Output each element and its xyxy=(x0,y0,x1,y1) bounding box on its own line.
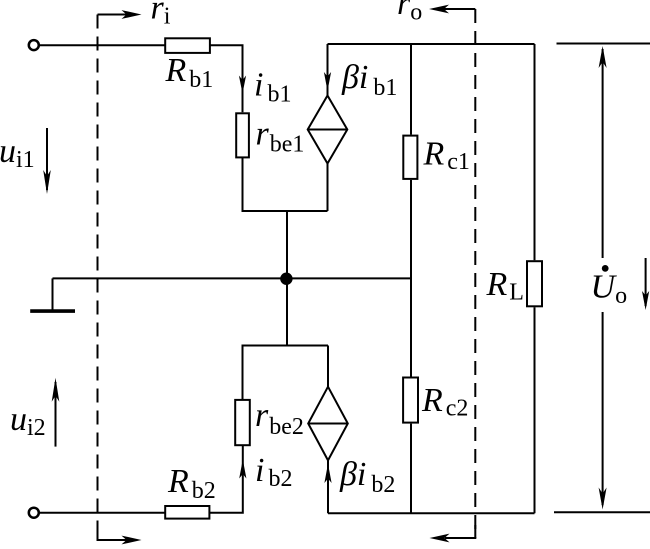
wire diamond2 bottom to bottom rail xyxy=(327,460,329,513)
controlled source U2 diamond xyxy=(308,387,348,461)
svg-text:Rc1: Rc1 xyxy=(423,136,470,176)
wire diamond1 bottom to junction wire xyxy=(327,164,329,212)
svg-text:ui1: ui1 xyxy=(0,133,35,173)
wire input2 to Rb2 xyxy=(40,512,166,514)
ro arrow xyxy=(444,8,475,10)
dashed boundary right xyxy=(474,9,476,538)
ui1 polarity arrow xyxy=(46,128,48,190)
resistor rbe2 xyxy=(235,400,250,445)
svg-text:βib2: βib2 xyxy=(339,456,395,498)
resistor RL xyxy=(527,261,542,306)
input terminal 1 xyxy=(29,40,39,50)
svg-text:Rb2: Rb2 xyxy=(167,463,216,504)
output measure bottom bar xyxy=(554,511,650,513)
controlled source U1 diamond xyxy=(308,96,348,164)
svg-text:Uo: Uo xyxy=(591,269,628,310)
ui2 polarity arrow xyxy=(55,382,57,447)
wire Rb2 to rbe2 (corner up) xyxy=(210,446,243,513)
wire top rail to Rc1 xyxy=(410,44,412,135)
svg-text:βib1: βib1 xyxy=(341,59,397,101)
resistor Rb2 xyxy=(165,506,209,519)
beta ib2 current arrow xyxy=(324,464,331,483)
ri arrow xyxy=(98,14,128,16)
ib1 current arrow xyxy=(239,76,246,94)
ground xyxy=(30,309,75,313)
svg-text:ui2: ui2 xyxy=(10,401,46,441)
ib2 current arrow xyxy=(239,460,246,479)
output measure line with arrows xyxy=(602,49,604,258)
input terminal 2 xyxy=(29,508,39,518)
svg-text:ri: ri xyxy=(151,0,171,30)
svg-text:ib2: ib2 xyxy=(255,452,292,492)
wire RL rail lower xyxy=(534,307,536,513)
resistor Rb1 xyxy=(165,38,210,53)
svg-text:Rc2: Rc2 xyxy=(421,382,468,422)
wire node vertical xyxy=(286,211,288,346)
Uo polarity arrow xyxy=(645,258,647,306)
ground stub wire xyxy=(52,278,54,311)
resistor Rc2 xyxy=(403,378,418,423)
wire Rc2 to bottom rail xyxy=(410,424,412,514)
wire rbe1 bottom to junction wire xyxy=(243,158,328,211)
bottom rail wire xyxy=(328,512,535,514)
beta ib1 current arrow xyxy=(324,72,331,91)
wire Rb1 to base node 1 (corner down) xyxy=(210,45,243,112)
top rail wire xyxy=(328,43,535,45)
common emitter wire xyxy=(53,277,412,279)
wire input1 to Rb1 xyxy=(40,44,166,46)
wire lower junction to rbe2 xyxy=(243,346,329,400)
svg-text:ro: ro xyxy=(397,0,422,26)
dashed boundary left xyxy=(97,15,99,541)
svg-text:rbe1: rbe1 xyxy=(256,116,305,158)
svg-text:ib1: ib1 xyxy=(254,67,291,108)
bottom-left bracket arrow xyxy=(98,527,128,540)
svg-text:rbe2: rbe2 xyxy=(255,397,304,440)
svg-text:RL: RL xyxy=(486,266,524,306)
node E (junction dot) xyxy=(281,274,291,284)
resistor rbe1 xyxy=(236,113,249,157)
bottom-right bracket arrow xyxy=(445,525,475,538)
wire Rc1 to Rc2 rail xyxy=(410,180,412,378)
svg-text:Rb1: Rb1 xyxy=(165,52,214,93)
wire lower junction to diamond2 top xyxy=(327,346,329,387)
wire collector rail down to dependent source 1 xyxy=(327,44,329,96)
output measure top bar xyxy=(557,43,650,45)
resistor Rc1 xyxy=(403,136,417,179)
wire RL rail upper xyxy=(534,44,536,260)
